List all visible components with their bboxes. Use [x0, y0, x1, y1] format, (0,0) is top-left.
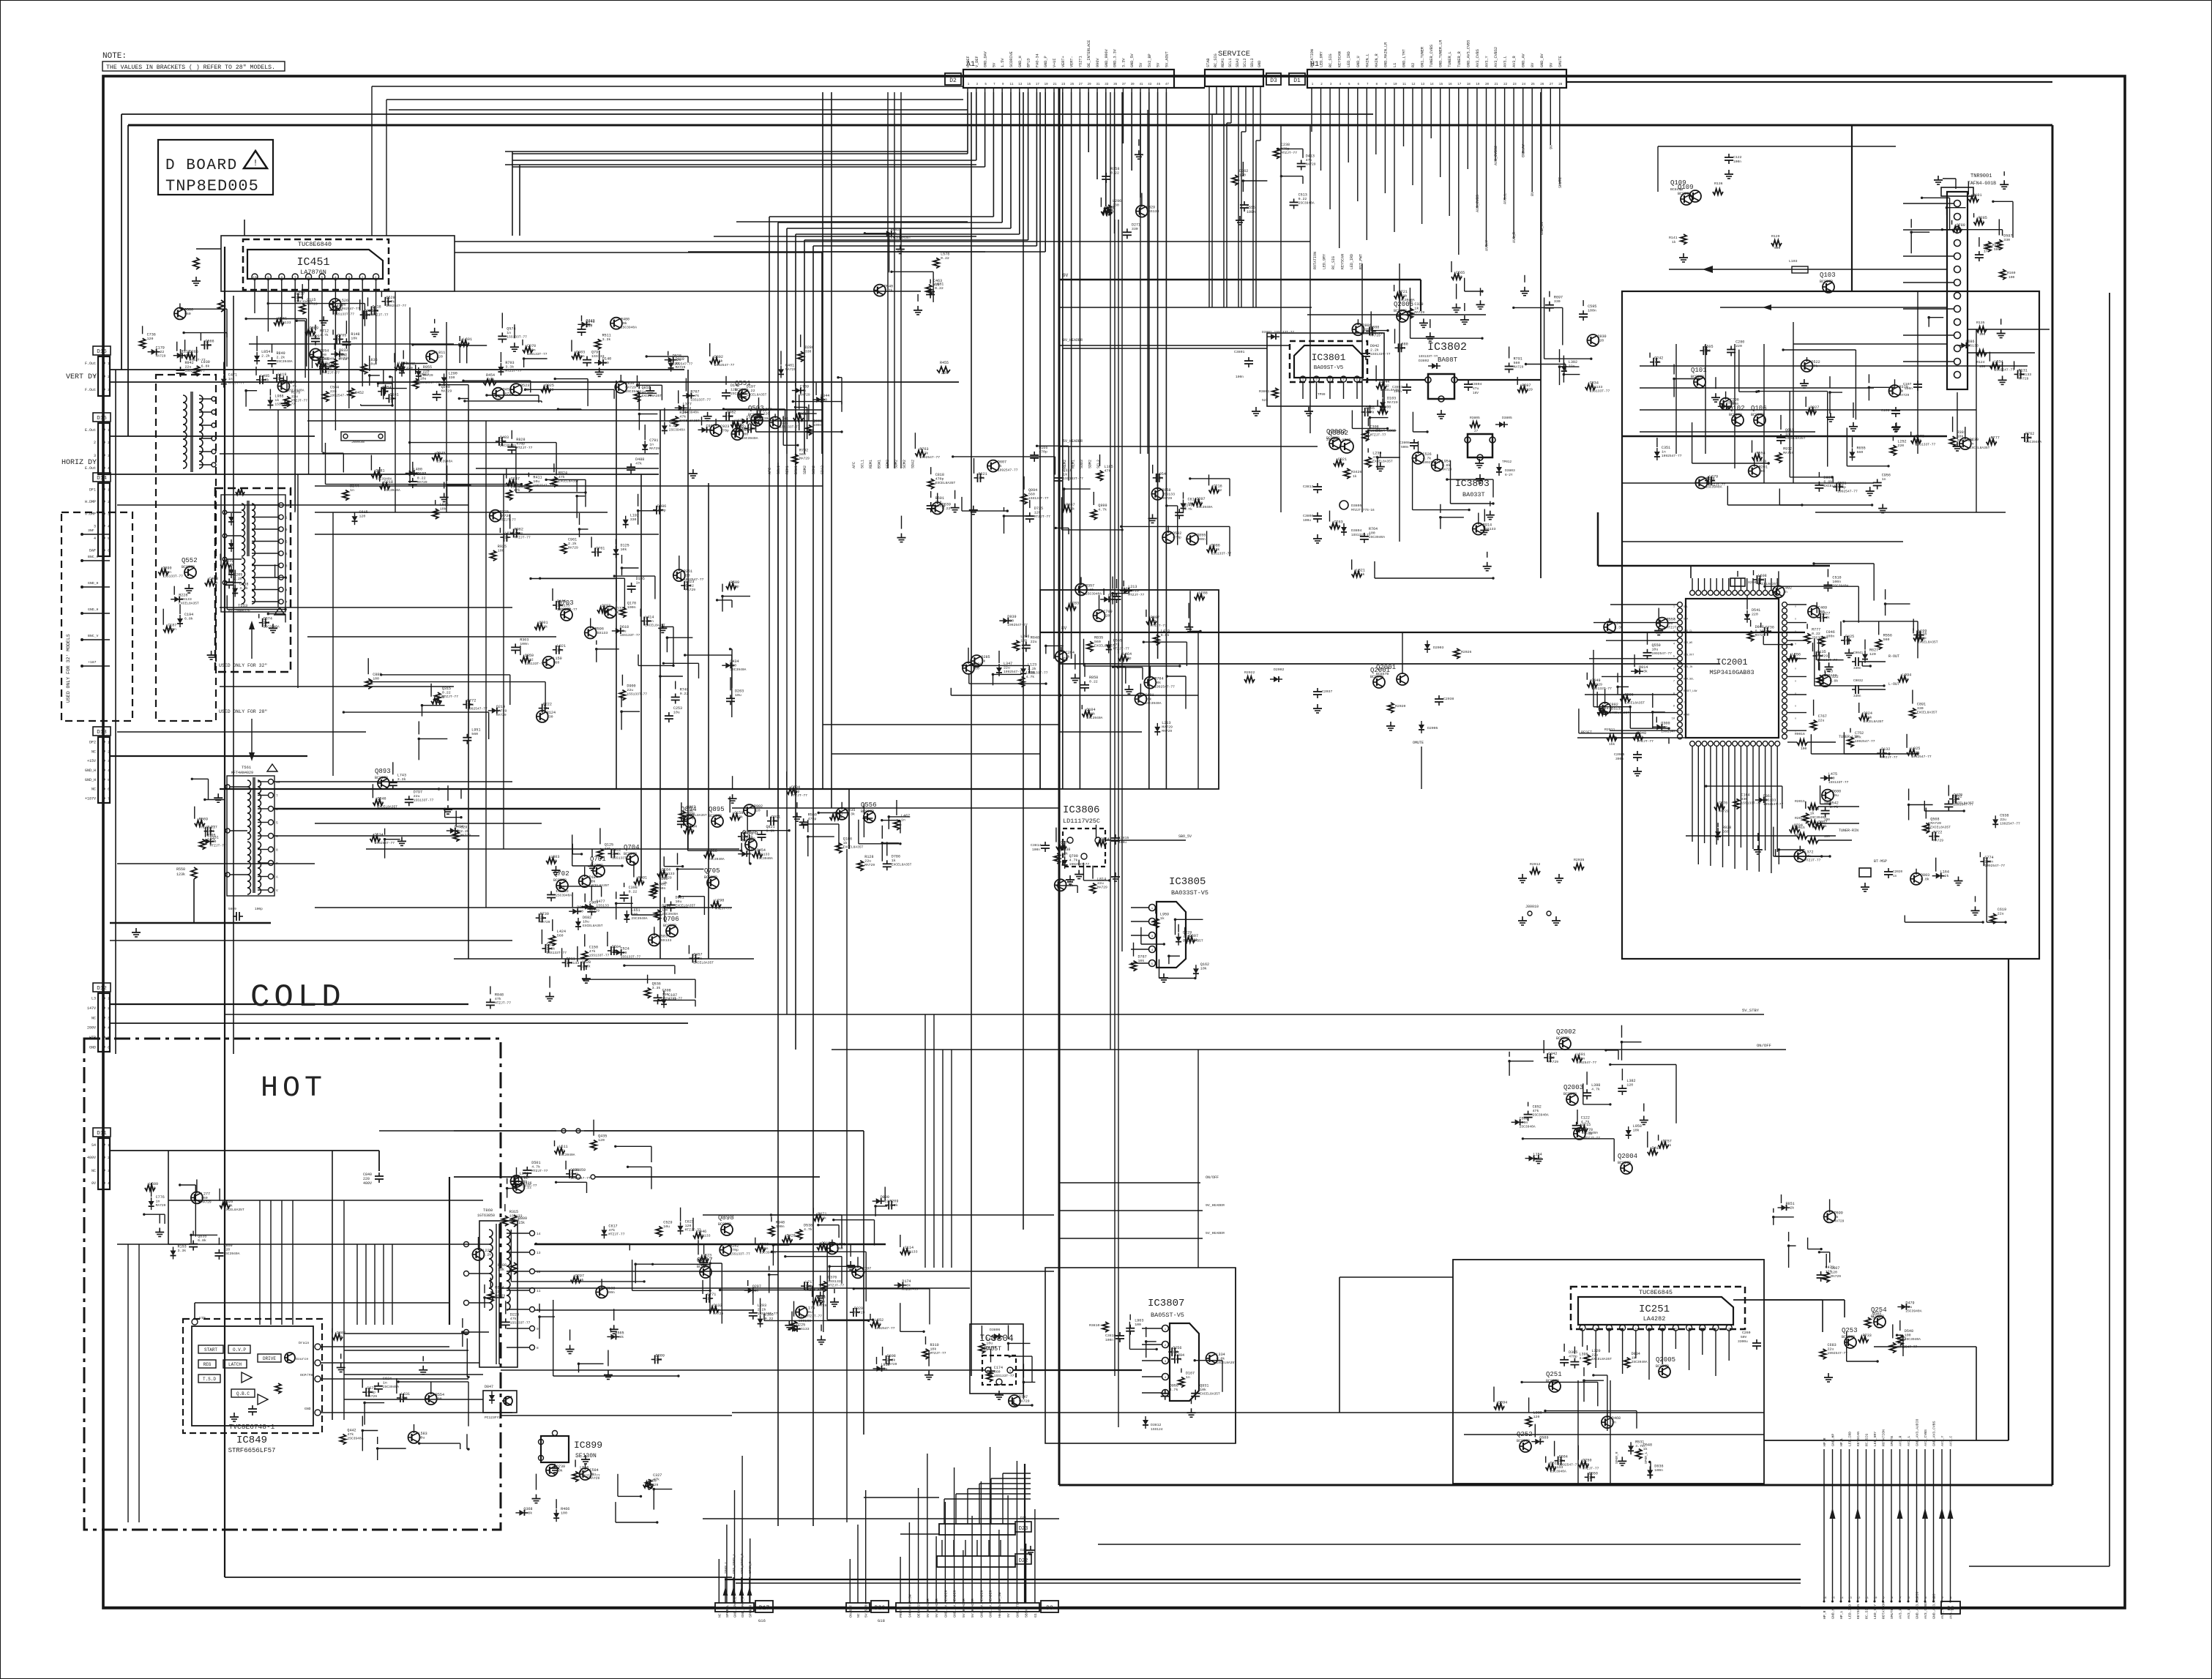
svg-text:Q115: Q115 [307, 298, 315, 302]
resistor Q207 in K1 D552 area [1192, 500, 1202, 506]
svg-text:2.2k: 2.2k [582, 964, 591, 968]
resistor L538 in L587 area [1019, 677, 1025, 687]
svg-text:1k: 1k [1066, 655, 1070, 659]
svg-text:9V_HEADER: 9V_HEADER [1063, 338, 1083, 343]
capacitor L135 in tuner Q103 L104 [1813, 655, 1817, 657]
svg-text:D420: D420 [787, 1234, 796, 1238]
diode C739 in Q551 T551 area [796, 388, 801, 394]
transistor Q894 [684, 815, 695, 827]
svg-text:52k: 52k [1262, 398, 1268, 403]
svg-text:100n: 100n [1832, 580, 1841, 584]
IC899 box [541, 1436, 569, 1462]
svg-text:D13: D13 [97, 730, 107, 736]
svg-text:1992547-77: 1992547-77 [467, 707, 487, 711]
svg-text:4.7k: 4.7k [1066, 506, 1075, 511]
diode L377 in Q551 T551 area [679, 405, 684, 411]
transistor Q503 [751, 414, 763, 426]
svg-text:120: 120 [1548, 1056, 1555, 1061]
capacitor Q574 in C553 area [501, 332, 503, 336]
capacitor R764 in Q3802 IC3803 parts [1364, 533, 1365, 536]
svg-text:L372: L372 [1804, 850, 1813, 855]
svg-text:1: 1 [108, 362, 110, 366]
svg-text:R605: R605 [1705, 477, 1714, 482]
svg-text:GND_AV: GND_AV [1522, 53, 1526, 67]
svg-text:10u: 10u [620, 629, 627, 634]
resistor D920 in IC2001 bottom parts [1803, 813, 1809, 823]
wire hot y1700 [117, 1244, 468, 1245]
transformer T561 windings lower [247, 842, 251, 848]
svg-text:L361: L361 [798, 412, 807, 416]
resistor C970 in deflection upper right [523, 347, 533, 353]
svg-text:6: 6 [307, 276, 310, 280]
svg-text:R655: R655 [1857, 446, 1866, 451]
transistor C954 in IC451 lower extra [310, 348, 321, 360]
capacitor D263 in deflection mid right [730, 695, 731, 698]
svg-text:47k: 47k [771, 819, 778, 823]
svg-text:22u: 22u [414, 794, 420, 799]
svg-text:MTZJT-77: MTZJT-77 [373, 313, 389, 317]
wire vert x1327 [971, 92, 972, 1376]
svg-text:13: 13 [1018, 83, 1023, 86]
svg-text:50V: 50V [1741, 1335, 1747, 1339]
svg-text:2SC3940A: 2SC3940A [1705, 485, 1722, 490]
capacitor D951 in Q704 Q705 area [670, 902, 672, 905]
diode Q464 in Q893 area [450, 828, 455, 834]
svg-text:22u: 22u [1004, 666, 1010, 670]
svg-text:GND_P: GND_P [1044, 56, 1048, 67]
transistor R282 in Q897 Q898 area [720, 1244, 731, 1256]
svg-text:D966: D966 [1755, 625, 1764, 629]
wire in tuner Q103 L104 [1886, 603, 1910, 605]
svg-text:x: x [1795, 706, 1796, 708]
wire hot to cold bus2 [501, 1369, 930, 1371]
svg-text:400V: 400V [363, 1181, 372, 1186]
wire tuner mesh v3 [1734, 344, 1735, 468]
tuner C107 [1917, 381, 1918, 384]
capacitor R148 in IC451 lower parts [345, 338, 347, 342]
wire ic451 drop3 long [294, 410, 296, 512]
resistor L691 in C553 area [459, 340, 469, 346]
svg-text:R2011: R2011 [1604, 728, 1615, 732]
capacitor R303 in Q703 area [515, 643, 516, 647]
svg-text:HOT: HOT [261, 1072, 326, 1105]
svg-text:47k: 47k [709, 853, 715, 857]
capacitor Q550 in IC2001 left decoupling [1647, 649, 1648, 653]
connector D8 wires [1823, 1449, 1825, 1601]
svg-text:RC_SIG: RC_SIG [1214, 53, 1218, 67]
svg-text:Q703: Q703 [558, 599, 574, 607]
capacitor L963 in IC3807 parts [1129, 1325, 1131, 1328]
capacitor D105 in Q703 area [631, 583, 632, 586]
svg-text:GND_3.3V: GND_3.3V [1113, 48, 1118, 67]
resistor D881 in L702 C581 area [371, 472, 381, 478]
wire v1790 [1309, 125, 1311, 433]
svg-text:AFC: AFC [852, 462, 856, 468]
capacitor L608 in tuner Q103 L104 [1754, 579, 1757, 580]
svg-text:390n: 390n [1615, 757, 1623, 761]
svg-text:LED_9RY: LED_9RY [1873, 1604, 1877, 1619]
ground in tuner right inner [2002, 375, 2003, 380]
svg-text:BNC_H: BNC_H [88, 555, 99, 559]
wire ic849 t860 a [344, 1333, 468, 1334]
svg-text:1: 1 [1673, 606, 1675, 609]
svg-text:10u: 10u [190, 354, 196, 359]
resistor L296 in A1 right parts [1105, 205, 1111, 215]
svg-text:D BOARD: D BOARD [165, 157, 238, 174]
wire mesh in C568 R550 area [1055, 527, 1069, 528]
wire bottom y2163 [736, 1582, 1801, 1584]
resistor R526 in D840 R809 area [220, 1203, 230, 1208]
svg-text:MA729: MA729 [785, 367, 796, 372]
svg-text:10: 10 [253, 276, 257, 280]
svg-text:BC857B: BC857B [681, 814, 694, 818]
svg-text:6.8k: 6.8k [766, 829, 775, 834]
svg-text:C888: C888 [1370, 325, 1379, 329]
svg-text:Q315: Q315 [442, 687, 451, 691]
32in box pins [81, 533, 83, 536]
IC849 internal blocks [198, 1345, 223, 1353]
svg-text:Q390: Q390 [162, 566, 171, 570]
svg-text:6.8k: 6.8k [1442, 463, 1451, 468]
svg-text:1SS133T-77: 1SS133T-77 [507, 334, 527, 339]
transistor Q704 [627, 853, 638, 865]
svg-text:SUD3: SUD3 [1080, 460, 1084, 468]
svg-text:Q242: Q242 [1654, 356, 1663, 361]
svg-text:2SC3940A: 2SC3940A [436, 460, 452, 464]
capacitor D772 in mid deflection parts [463, 704, 466, 706]
capacitor Q993 in Q551 T551 area [733, 430, 736, 432]
svg-text:33: 33 [1105, 83, 1109, 86]
wire ic849 t860 b [344, 1350, 468, 1351]
wire in tuner top right [1947, 207, 1966, 209]
svg-text:1k: 1k [715, 902, 720, 907]
svg-text:4: 4 [1339, 83, 1341, 86]
svg-text:EXCEL8A35T: EXCEL8A35T [224, 1208, 244, 1212]
svg-text:0.22: 0.22 [442, 691, 451, 695]
transistor Q253 [1845, 1336, 1856, 1348]
resistor C607 in C260 area [1823, 1272, 1829, 1282]
svg-text:R-OUT: R-OUT [1888, 654, 1899, 659]
svg-text:C3804: C3804 [1471, 382, 1482, 386]
ground in C568 R550 area [973, 506, 974, 510]
svg-text:Q162: Q162 [1200, 962, 1209, 967]
diode D119 in Q551 T551 area [668, 363, 674, 368]
svg-text:L277: L277 [201, 1192, 210, 1196]
svg-text:330: 330 [449, 375, 455, 380]
svg-text:C894: C894 [1176, 1353, 1184, 1358]
svg-text:Q186: Q186 [843, 837, 852, 842]
svg-text:EXCEL8A35T: EXCEL8A35T [377, 804, 397, 809]
resistor C564 in IC451 lower extra [323, 392, 329, 402]
wire in loop area parts [1560, 366, 1580, 367]
capacitor D391 in Q896 diode row [767, 820, 771, 822]
svg-text:2.2k: 2.2k [1940, 874, 1949, 878]
svg-text:147V: 147V [87, 1006, 96, 1011]
svg-text:Q600: Q600 [1832, 790, 1841, 794]
svg-text:22u: 22u [1905, 1305, 1912, 1309]
ground in D846 R832 area [536, 1495, 537, 1499]
diode R531 in Q251 Q252 area [1628, 1446, 1634, 1451]
svg-text:R601: R601 [935, 496, 944, 501]
svg-text:+187: +187 [88, 660, 97, 665]
diode C524 in D503 D505 area [616, 949, 621, 955]
capacitor C894 in IC3807 parts [1171, 1358, 1175, 1360]
svg-text:28: 28 [1558, 83, 1563, 86]
resistor L803 in Q701 Q702 area [546, 858, 556, 864]
svg-text:1: 1 [1165, 1328, 1167, 1331]
diode Q214 in mid deflection parts [492, 708, 497, 714]
resistor L467 in Q556 area [894, 820, 900, 830]
connector A1 [963, 70, 1174, 88]
ground in T860 secondary parts [569, 1345, 571, 1350]
resistor R808 [511, 1263, 517, 1274]
wire in IC3802 parts [1370, 417, 1389, 419]
svg-text:2: 2 [108, 500, 110, 504]
svg-text:10u: 10u [1652, 647, 1659, 651]
svg-text:1SS133T-77: 1SS133T-77 [162, 574, 183, 578]
svg-text:L135: L135 [1817, 650, 1826, 654]
svg-text:AV3_CVBS2: AV3_CVBS2 [1494, 47, 1498, 67]
wire defl y938 [220, 686, 454, 687]
resistor C263 in Q3802 IC3803 parts [1329, 523, 1339, 529]
svg-text:C9032: C9032 [1853, 679, 1864, 683]
resistor Q170 in Q703 area [620, 607, 626, 618]
svg-text:EXCEL8A35T: EXCEL8A35T [1200, 1392, 1220, 1396]
diode C984 in Q503 right [701, 427, 706, 433]
resistor L423 in Q551 T551 area [731, 422, 741, 427]
wire horiz dy 2 [110, 474, 659, 475]
svg-text:GND_MAIN_LR: GND_MAIN_LR [1383, 42, 1388, 67]
svg-text:D305: D305 [1569, 1350, 1577, 1355]
diode C617 in T860 secondary parts [601, 1230, 607, 1235]
svg-text:15: 15 [1439, 83, 1443, 86]
svg-text:5V_AOUT: 5V_AOUT [1165, 51, 1169, 67]
svg-text:R135: R135 [1976, 321, 1985, 325]
svg-text:MA729: MA729 [156, 1203, 166, 1208]
wire q2001 muting [1402, 632, 1403, 673]
resistor C308 in IC3802 parts [1363, 431, 1369, 441]
svg-text:C3814: C3814 [1031, 843, 1042, 848]
transistor L583 in C844 R841 area [408, 1432, 420, 1443]
wire right loop inner [2008, 960, 2009, 1440]
svg-text:330: 330 [1917, 706, 1924, 711]
svg-text:2SC3940A: 2SC3940A [264, 625, 280, 629]
wire bus y210 [505, 151, 968, 152]
capacitor C808 in D874 L873 area [883, 1359, 886, 1361]
svg-text:2: 2 [1673, 618, 1675, 621]
resistor C478 in mid deflection parts [431, 698, 441, 704]
svg-text:Q994: Q994 [1028, 488, 1037, 493]
ground in tuner top right [2003, 180, 2005, 184]
resistor Q125 in Q701 Q702 area [597, 848, 603, 859]
svg-text:Q254: Q254 [1871, 1306, 1887, 1314]
svg-text:8V: 8V [1531, 62, 1535, 67]
resistor L691 in Q2002 Q2003 Q2004 area [1572, 1055, 1583, 1061]
svg-text:D375: D375 [1108, 594, 1117, 598]
svg-text:2SC3940A: 2SC3940A [223, 1252, 239, 1256]
svg-text:L396: L396 [1579, 1353, 1588, 1357]
capacitor C946 in deflection upper right [581, 326, 583, 329]
svg-text:C907: C907 [589, 901, 598, 905]
resistor C339 in Q2006 area [1407, 308, 1413, 318]
svg-text:100n: 100n [1577, 1057, 1585, 1061]
Q2001 cluster [1397, 673, 1408, 685]
wire in deflection upper right [524, 358, 548, 359]
svg-text:123k: 123k [176, 872, 185, 877]
bottom bus wire [103, 1607, 715, 1609]
svg-text:2.2k: 2.2k [225, 563, 233, 567]
wire q109 top [1658, 146, 1896, 147]
capacitor C253 in deflection mid right [668, 712, 670, 716]
svg-text:3: 3 [1151, 935, 1154, 938]
diode R814 in IC2001 left decoupling [1634, 668, 1640, 674]
svg-text:L419: L419 [1161, 629, 1170, 633]
IC3801 body [1294, 345, 1363, 378]
wire defl y664 [315, 485, 823, 487]
ground in Q897 Q898 area [834, 1298, 835, 1302]
Q109 res R136 [1713, 189, 1723, 195]
capacitor Q403 in L702 C581 area [496, 441, 499, 442]
wire vert x1517 [1110, 92, 1111, 1050]
wire bot h2096 [900, 1533, 939, 1535]
svg-text:15k: 15k [518, 1221, 525, 1225]
svg-text:BC857B: BC857B [1871, 1315, 1884, 1319]
svg-text:47k: 47k [979, 476, 985, 480]
capacitor R942 in R460 area [180, 367, 182, 370]
capacitor L382 in Q2002 Q2003 Q2004 area [1621, 1085, 1623, 1088]
svg-text:12: 12 [1411, 83, 1416, 86]
svg-text:D118: D118 [1918, 632, 1927, 636]
svg-text:BA033ST-V5: BA033ST-V5 [1171, 889, 1208, 897]
resistor L419 in L704 Q703b area [1154, 635, 1159, 645]
connector D26 [871, 1601, 889, 1612]
ground in D874 L873 area [850, 1261, 851, 1265]
svg-text:4.7k: 4.7k [1170, 1388, 1178, 1392]
svg-text:Q895: Q895 [709, 806, 725, 813]
svg-text:31: 31 [1096, 83, 1100, 86]
svg-text:DRIVE: DRIVE [263, 1356, 276, 1361]
svg-text:R927: R927 [1810, 405, 1819, 410]
resistor L601 in Q704 Q705 area [650, 889, 656, 899]
diode R466 in D846 R832 area [553, 1513, 559, 1518]
wire in tuner top right [1911, 231, 1929, 233]
svg-text:BC857B: BC857B [1546, 1379, 1559, 1383]
svg-text:100: 100 [1824, 835, 1830, 839]
svg-text:SCL1: SCL1 [1228, 59, 1233, 67]
diode D140 in deflection upper right [598, 360, 603, 366]
svg-text:L398: L398 [1591, 1083, 1600, 1088]
svg-text:Q2002: Q2002 [1556, 1028, 1576, 1036]
svg-text:47u: 47u [1473, 386, 1479, 391]
resistor D986 in K1 D552 area [1207, 546, 1217, 552]
svg-text:1992547-77: 1992547-77 [1577, 1061, 1597, 1065]
svg-text:L963: L963 [1135, 1319, 1143, 1323]
svg-text:IC3803: IC3803 [1455, 478, 1490, 489]
wire hot h1878 [344, 1374, 483, 1375]
svg-text:L951: L951 [471, 728, 480, 733]
svg-text:6.8k: 6.8k [198, 1238, 206, 1243]
diode Q555 in center 8V parts [1106, 644, 1112, 649]
resistor L578 in below A1 parts [933, 258, 939, 268]
svg-text:1992547-77: 1992547-77 [714, 363, 735, 367]
wire in L587 area [993, 673, 1022, 675]
wire defl y1000 [117, 731, 366, 733]
svg-text:2: 2 [108, 441, 110, 445]
svg-text:C891: C891 [1917, 703, 1926, 707]
svg-text:Q.B.C: Q.B.C [236, 1391, 250, 1396]
svg-text:Q170: Q170 [627, 602, 636, 606]
svg-text:H.DMP: H.DMP [85, 500, 96, 504]
resistor D694 in Q251 Q252 area [1494, 1404, 1504, 1410]
svg-text:47k: 47k [688, 829, 695, 833]
svg-text:L816: L816 [580, 1465, 589, 1470]
svg-text:R235: R235 [846, 808, 855, 812]
svg-text:HP_L: HP_L [1839, 1610, 1844, 1619]
svg-text:0.22: 0.22 [1380, 384, 1389, 389]
svg-text:25: 25 [1531, 83, 1536, 86]
svg-text:2.2k: 2.2k [1370, 348, 1379, 352]
diode R851 in C260 area [1781, 1205, 1786, 1211]
wire bottom long y2075 [703, 1518, 1059, 1519]
diode L186 in D874 L873 area [758, 1319, 763, 1324]
svg-text:AFC: AFC [768, 468, 772, 474]
capacitor D911 in D503 D505 area [562, 962, 566, 963]
transistor Q705 [707, 877, 719, 889]
capacitor C840 [378, 1173, 380, 1176]
svg-text:BSW1: BSW1 [794, 465, 799, 474]
transistor D803 in R111 D102 area [1910, 873, 1922, 885]
svg-text:C147: C147 [511, 477, 520, 482]
ground in tuner Q103 L104 [1828, 662, 1830, 667]
svg-text:MTZJT-77: MTZJT-77 [806, 1315, 822, 1319]
wire bottom bus y2140 [1969, 1566, 2110, 1567]
transistor L761 in Q503 drive area [769, 416, 781, 428]
svg-text:2SC3940A: 2SC3940A [384, 488, 400, 493]
svg-text:C818: C818 [935, 473, 944, 477]
svg-text:MTZJT-77: MTZJT-77 [516, 446, 532, 450]
capacitor D809 in T860 secondary parts [651, 1358, 655, 1360]
wire mesh in tuner top right [1942, 229, 2002, 231]
svg-text:Q705: Q705 [704, 867, 720, 875]
svg-text:C294: C294 [1066, 651, 1075, 655]
svg-text:SMUTE: SMUTE [1558, 177, 1563, 188]
svg-text:ROTATION: ROTATION [1882, 1429, 1886, 1446]
svg-text:3: 3 [348, 276, 350, 280]
svg-text:1: 1 [108, 1143, 110, 1148]
svg-text:EXCEL8A35T: EXCEL8A35T [843, 845, 864, 850]
svg-text:GND_5V: GND_5V [1130, 53, 1135, 67]
svg-text:D12: D12 [97, 986, 107, 992]
wire defl v610 [446, 322, 447, 512]
svg-text:1992547-77: 1992547-77 [1837, 489, 1858, 493]
resistor L266 in L587 area [1013, 640, 1019, 651]
svg-text:0.22: 0.22 [1812, 632, 1820, 636]
svg-text:22u: 22u [1818, 718, 1825, 722]
wire tuner mesh v5 [1793, 322, 1794, 483]
svg-text:L400: L400 [414, 468, 422, 472]
svg-text:470p: 470p [791, 790, 800, 794]
wire deflect v540 [395, 291, 396, 512]
connector D17 upper wires [725, 1577, 726, 1603]
svg-text:L803: L803 [550, 855, 559, 859]
resistor C150 in Q705 row extra [582, 951, 588, 961]
svg-text:3: 3 [94, 524, 96, 528]
svg-text:AV3_Y: AV3_Y [1485, 56, 1490, 67]
svg-text:AV3_R: AV3_R [1899, 1608, 1903, 1619]
bus vertical x1447 [1058, 88, 1061, 1485]
wire in IC451 right lower [403, 363, 427, 364]
capacitor D786 in Q556 area [886, 860, 888, 864]
